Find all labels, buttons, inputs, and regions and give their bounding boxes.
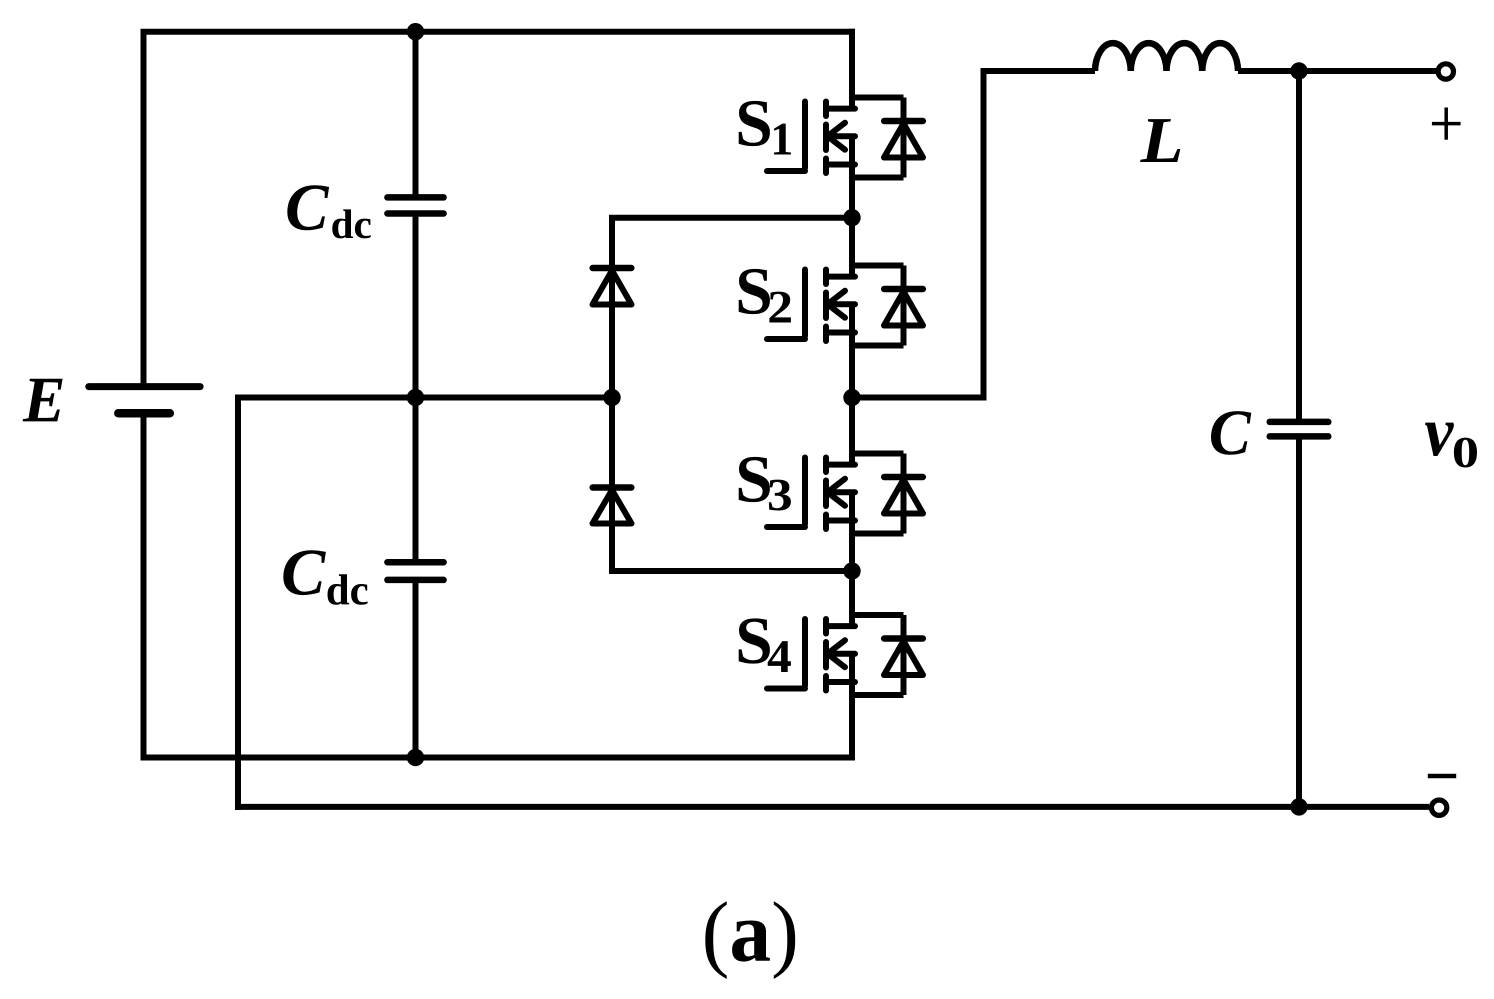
diode D1 clamp upper xyxy=(609,218,615,268)
wire clamp bottom to S3/S4 junction xyxy=(609,568,852,574)
diode S3 body diode xyxy=(852,451,904,457)
wire output bottom xyxy=(235,804,1429,810)
label v0 xyxy=(1425,423,1454,456)
S4 drain lead xyxy=(826,623,855,629)
node dot S3/S4 junction xyxy=(843,562,860,579)
wire Cdc column lower xyxy=(413,580,419,758)
S4 body lead arrow xyxy=(827,651,855,657)
wire S2 drain rail xyxy=(849,215,855,277)
S1 drain lead xyxy=(826,106,855,112)
wire S3 drain rail xyxy=(849,395,855,465)
wire S1 drain rail xyxy=(849,29,855,109)
node dot bottom rail at Cdc2 column xyxy=(407,749,424,766)
capacitor C plates xyxy=(1270,419,1329,426)
S1 source lead xyxy=(826,162,855,168)
node dot S1/S2 junction xyxy=(843,209,860,226)
S4 gate bar xyxy=(802,619,808,686)
wire left rail lower xyxy=(141,413,147,760)
wire S2 source rail xyxy=(849,304,855,400)
transistor S1 xyxy=(767,29,923,221)
S1 gate bar xyxy=(802,102,808,169)
label Cdc2 xyxy=(283,550,326,595)
S3 gate lead xyxy=(767,524,805,530)
terminal circle - (bottom right) xyxy=(1431,800,1446,815)
S3 drain lead xyxy=(826,462,855,468)
transistor S2 xyxy=(767,215,923,401)
label S2 xyxy=(739,269,770,314)
diode S2 body diode xyxy=(852,263,904,269)
wire left rail upper xyxy=(141,32,147,387)
label S4 xyxy=(739,618,770,663)
node dot neutral at Cdc column xyxy=(407,389,424,406)
S1 channel bars xyxy=(823,102,829,117)
wire phase to filter xyxy=(852,395,987,401)
capacitor Cdc2 plates xyxy=(387,559,443,566)
wire S3 source rail xyxy=(849,492,855,574)
S1 gate lead xyxy=(767,168,805,174)
S4 source lead xyxy=(826,679,855,685)
inductor L xyxy=(1095,43,1238,71)
label S1 xyxy=(739,101,770,146)
node dot neutral at clamp column xyxy=(603,389,620,406)
node dot top rail at Cdc1 column xyxy=(407,23,424,40)
node dot output bottom at C column xyxy=(1290,798,1307,815)
wire S1 source rail xyxy=(849,136,855,221)
plus sign xyxy=(1432,122,1461,126)
wire S4 drain rail xyxy=(849,568,855,626)
S3 source lead xyxy=(826,518,855,524)
transistor S4 xyxy=(767,568,923,761)
node dot S2/S3 junction (phase node) xyxy=(843,389,860,406)
battery E plates xyxy=(89,383,200,390)
diode S4 body diode xyxy=(852,612,904,618)
S3 gate bar xyxy=(802,458,808,525)
S2 body lead arrow xyxy=(827,301,855,307)
caption (a) xyxy=(705,901,795,979)
S2 gate lead xyxy=(767,336,805,342)
wire C column upper xyxy=(1296,71,1302,422)
wire clamp top to S1/S2 junction xyxy=(609,215,852,221)
wire S4 source rail xyxy=(849,654,855,761)
wire bottom DC rail xyxy=(141,755,856,761)
node dot top output at C column xyxy=(1290,62,1307,79)
S2 drain lead xyxy=(826,274,855,280)
S1 body lead arrow xyxy=(827,133,855,139)
S4 gate lead xyxy=(767,686,805,692)
wire neutral horizontal xyxy=(235,395,612,401)
label C xyxy=(1211,411,1251,455)
S2 gate bar xyxy=(802,270,808,337)
terminal circle + (top right) xyxy=(1438,64,1453,79)
diode S1 body diode xyxy=(852,95,904,101)
S4 channel bars xyxy=(823,619,829,634)
capacitor Cdc1 plates xyxy=(387,194,443,201)
wire top output xyxy=(1238,68,1436,74)
S2 channel bars xyxy=(823,270,829,285)
label S3 xyxy=(739,457,770,502)
wire top DC rail xyxy=(141,29,856,35)
wire C column lower xyxy=(1296,436,1302,807)
minus sign xyxy=(1428,774,1456,779)
label Cdc1 xyxy=(287,185,329,230)
wire Cdc column upper xyxy=(413,32,419,198)
label L xyxy=(1140,119,1180,162)
wire Cdc column mid upper xyxy=(413,214,419,398)
diode D2 clamp lower xyxy=(609,398,615,488)
wire neutral drop xyxy=(235,398,241,810)
label E xyxy=(23,379,63,422)
S3 channel bars xyxy=(823,458,829,473)
S2 source lead xyxy=(826,330,855,336)
transistor S3 xyxy=(767,395,923,575)
wire Cdc column mid lower xyxy=(413,398,419,563)
S3 body lead arrow xyxy=(827,489,855,495)
